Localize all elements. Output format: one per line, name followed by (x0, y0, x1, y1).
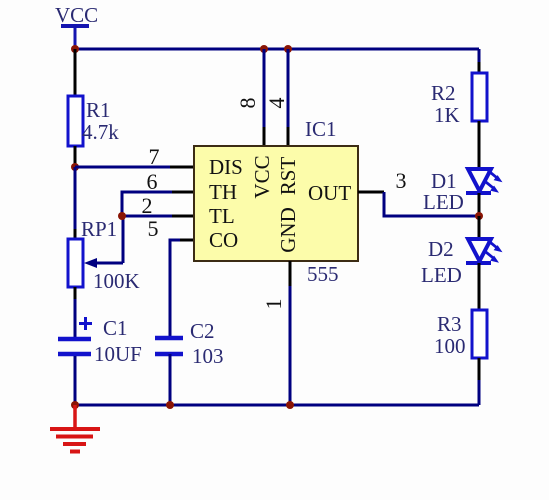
svg-text:LED: LED (423, 190, 464, 214)
svg-text:GND: GND (276, 207, 300, 253)
svg-text:C2: C2 (190, 319, 215, 343)
svg-text:VCC: VCC (250, 155, 274, 198)
node C2 bottom junction (166, 401, 174, 409)
capacitor C1 (58, 337, 91, 342)
wire junction to D2 (478, 216, 481, 239)
svg-text:R2: R2 (431, 81, 456, 105)
svg-text:6: 6 (147, 169, 158, 194)
wire C1 bottom lead (74, 356, 77, 405)
svg-text:1: 1 (261, 299, 286, 310)
svg-text:555: 555 (307, 262, 339, 286)
wire right column top (478, 49, 481, 62)
resistor R1 (68, 96, 83, 146)
svg-text:CO: CO (209, 228, 238, 252)
svg-text:VCC: VCC (55, 3, 98, 27)
svg-text:100: 100 (434, 334, 466, 358)
capacitor C2 (155, 336, 183, 341)
svg-text:RP1: RP1 (81, 217, 117, 241)
wire pin 3 OUT (358, 191, 384, 194)
svg-text:C1: C1 (103, 316, 128, 340)
svg-text:7: 7 (149, 144, 160, 169)
svg-text:R1: R1 (86, 98, 111, 122)
svg-text:R3: R3 (437, 312, 462, 336)
svg-text:8: 8 (235, 98, 260, 109)
svg-text:TL: TL (209, 204, 235, 228)
diode D1 LED (466, 169, 503, 193)
wire pin 4 drop (287, 49, 290, 127)
wire R1 bottom lead (74, 146, 77, 167)
node ground junction (71, 401, 79, 409)
diode D2 LED (466, 239, 503, 263)
wire wiper to TL junction (122, 216, 125, 263)
svg-text:1K: 1K (434, 103, 460, 127)
svg-text:LED: LED (421, 263, 462, 287)
svg-text:4.7k: 4.7k (82, 120, 119, 144)
wire R1 junction to RP1 (74, 167, 77, 229)
resistor R3 (472, 310, 487, 358)
resistor R2 (472, 73, 487, 121)
node pin8 junction (260, 45, 268, 53)
node OUT junction (475, 212, 483, 220)
svg-text:3: 3 (396, 168, 407, 193)
svg-text:10UF: 10UF (94, 342, 142, 366)
wire pin 5 CO (180, 239, 194, 242)
op 555 IC1 body (194, 146, 358, 261)
wire RP1 bottom lead (74, 287, 77, 299)
svg-text:2: 2 (142, 193, 153, 218)
RP1 wiper arrow (94, 262, 123, 265)
wire R3 to bottom rail (478, 358, 481, 380)
svg-text:100K: 100K (93, 269, 140, 293)
potentiometer RP1 (68, 239, 83, 287)
wire C2 bottom lead (169, 354, 172, 405)
wire pin 6 TH (172, 191, 194, 194)
svg-text:IC1: IC1 (305, 117, 337, 141)
svg-text:OUT: OUT (308, 181, 351, 205)
node pin4 junction (284, 45, 292, 53)
node pin1 bottom junction (286, 401, 294, 409)
svg-text:5: 5 (148, 216, 159, 241)
VCC power symbol bar (61, 24, 89, 28)
svg-text:TH: TH (209, 180, 237, 204)
wire pin 2 TL (172, 215, 194, 218)
wire VCC symbol to top rail (74, 26, 77, 49)
wire R2 to D1 (478, 121, 481, 169)
wire pin 1 GND drop (289, 261, 292, 286)
svg-text:DIS: DIS (209, 155, 243, 179)
node VCC junction (71, 45, 79, 53)
wire R1 top lead (74, 49, 77, 97)
wire pin 8 drop (263, 49, 266, 127)
svg-text:103: 103 (192, 344, 224, 368)
wire D1 to junction (478, 193, 481, 216)
wire D2 to R3 (478, 263, 481, 310)
wire top rail (75, 48, 479, 51)
svg-text:D2: D2 (428, 237, 454, 261)
wire pin 7 DIS (75, 166, 170, 169)
node TH/TL/wiper junction (118, 212, 126, 220)
svg-text:RST: RST (276, 157, 300, 196)
wire bottom rail (75, 404, 479, 407)
svg-text:4: 4 (264, 98, 289, 109)
ground (50, 405, 100, 452)
node R1/DIS junction (71, 163, 79, 171)
